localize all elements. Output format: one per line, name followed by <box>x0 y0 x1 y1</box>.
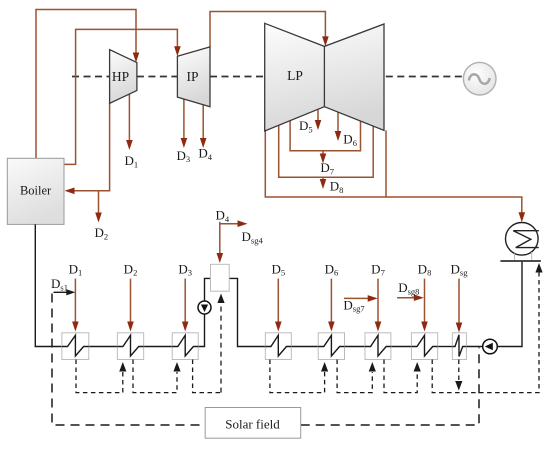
wire drain D7 to D8 (dashed) <box>384 360 417 393</box>
pump feed (deaerator outlet) <box>198 301 211 314</box>
svg-text:IP: IP <box>186 69 198 84</box>
wire LP right exhaust leg (red) <box>385 130 387 197</box>
wire extraction arrow into heater D7 (red) <box>377 279 379 322</box>
wire feedwater between heaters 1-2 <box>89 346 118 348</box>
heater D6 <box>318 333 344 360</box>
wire solar field return (dashed black) <box>301 348 479 426</box>
pump condensate <box>483 339 498 354</box>
wire extraction arrow into heater D2 (red) <box>130 279 132 322</box>
wire drain D5 to D6 (dashed) <box>270 360 325 393</box>
arrowhead into deaerator <box>217 253 224 263</box>
heater Dsg <box>452 333 466 360</box>
wire extraction arrow into heater D8 (red) <box>424 279 426 322</box>
solar field box <box>205 408 301 439</box>
arrowhead D4 <box>200 138 207 148</box>
turbine HP <box>110 50 137 104</box>
generator G <box>463 62 496 95</box>
arrowhead D6 <box>335 131 342 141</box>
wire drain D3 to deaerator (dashed) <box>193 360 221 393</box>
shaft dashed line IP-LP <box>210 76 265 78</box>
wire feedwater between heaters 8-sg <box>438 346 453 348</box>
wire extraction D4 from IP (red) <box>202 105 204 139</box>
wire crossover IP to LP (red) <box>210 12 325 47</box>
heater D5 <box>265 333 291 360</box>
wire D7 drop <box>322 151 324 154</box>
arrowhead D8 <box>320 179 327 189</box>
arrowhead crossover into LP <box>322 36 329 46</box>
wire feedwater between heaters 7-8 <box>391 346 412 348</box>
wire D4 steam to deaerator (red) <box>219 222 221 254</box>
wire feedwater between heaters 5-6 <box>291 346 318 348</box>
wire feedwater between heaters 2-3 <box>144 346 173 348</box>
svg-text:LP: LP <box>287 68 303 83</box>
arrowhead D7 <box>320 154 327 164</box>
wire Ds1 tap arrow (black) <box>54 291 69 293</box>
turbine LP (double flow) <box>265 23 384 131</box>
wire extraction arrow into heater D5 (red) <box>277 279 279 322</box>
svg-text:Solar field: Solar field <box>225 417 280 432</box>
wire condensate Dsg heater to condenser pipe <box>466 261 522 347</box>
wire deaerator feed riser (dashed) <box>220 303 222 393</box>
wire extraction arrow into heater D3 (red) <box>184 279 186 322</box>
arrowhead drain into D3 <box>173 362 180 372</box>
heater D2 <box>117 333 143 360</box>
wire deaerator right leg to heater D5 <box>229 278 265 346</box>
turbine IP <box>177 47 210 107</box>
shaft dashed line left of HP <box>72 76 110 78</box>
wire extraction arrow into heater D1 (red) <box>74 279 76 322</box>
wire drain D1 to D2 (dashed) <box>76 360 123 393</box>
shaft dashed line HP-IP <box>137 76 178 78</box>
arrowhead drain into D7 <box>369 362 376 372</box>
arrowhead Dsg drain down <box>455 381 462 391</box>
wire Dsg8 solar steam arrow (red) <box>397 297 414 299</box>
wire hot reheat boiler to IP (red) <box>64 29 177 164</box>
wire drain D8 to condenser line (dashed) <box>432 271 539 393</box>
svg-text:Boiler: Boiler <box>20 184 52 198</box>
wire extraction D8 manifold from LP (red) <box>279 126 374 178</box>
arrowhead drain into D2 <box>119 362 126 372</box>
wire extraction D3 from IP (red) <box>183 99 185 139</box>
wire extraction D2 branch (red) <box>98 191 100 213</box>
arrowhead cold reheat into boiler <box>65 188 75 195</box>
wire drain Dsg down (dashed) <box>458 360 460 382</box>
wire feedwater boiler downcomer (black) <box>35 224 62 346</box>
arrowhead main steam into HP <box>133 53 140 63</box>
wire cold reheat HP to boiler (red) <box>74 103 110 190</box>
heater D1 <box>62 333 89 360</box>
arrowhead D3 <box>181 138 188 148</box>
wire Dsg4 branch (red) <box>220 223 238 225</box>
arrowhead D5 <box>315 120 322 130</box>
arrowhead hot reheat into IP <box>174 46 181 56</box>
arrowhead drain into condenser base <box>535 263 542 273</box>
wire solar field supply (dashed black) <box>52 294 205 426</box>
condenser <box>500 223 540 262</box>
wire drain D2 to D3 (dashed) <box>133 360 177 393</box>
wire drain D6 to D7 (dashed) <box>337 360 372 393</box>
heater D8 <box>411 333 437 360</box>
arrowhead D1 <box>126 140 133 150</box>
wire feedwater heater3 to deaerator leg <box>198 278 210 346</box>
heater D3 <box>172 333 198 360</box>
heater D7 <box>365 333 391 360</box>
wire main steam boiler to HP (red) <box>36 10 136 159</box>
wire LP exhaust to condenser (red) <box>265 131 522 213</box>
wire D8 drop <box>322 177 324 179</box>
arrowhead drain into D6 <box>321 362 328 372</box>
arrowhead into deaerator bottom <box>217 294 224 304</box>
arrowhead D2 <box>95 213 102 223</box>
deaerator <box>211 264 230 291</box>
arrowhead Dsg4 <box>238 220 248 227</box>
svg-text:HP: HP <box>112 69 129 84</box>
wire extraction D7 manifold from LP (red) <box>290 121 360 151</box>
wire extraction arrow into heater D6 (red) <box>330 279 332 322</box>
wire Dsg7 solar steam arrow (red) <box>344 297 369 299</box>
boiler <box>7 158 64 224</box>
shaft dashed line LP-generator <box>386 76 463 78</box>
wire extraction D6 from LP (red) <box>337 112 339 131</box>
arrowhead exhaust into condenser <box>519 212 526 222</box>
wire extraction D1 from HP (red) <box>128 94 130 141</box>
arrowhead drain into D8 <box>414 362 421 372</box>
wire feedwater between heaters 6-7 <box>345 346 366 348</box>
wire extraction D5 from LP (red) <box>317 109 319 120</box>
wire extraction arrow into heater Dsg (red) <box>458 279 460 323</box>
